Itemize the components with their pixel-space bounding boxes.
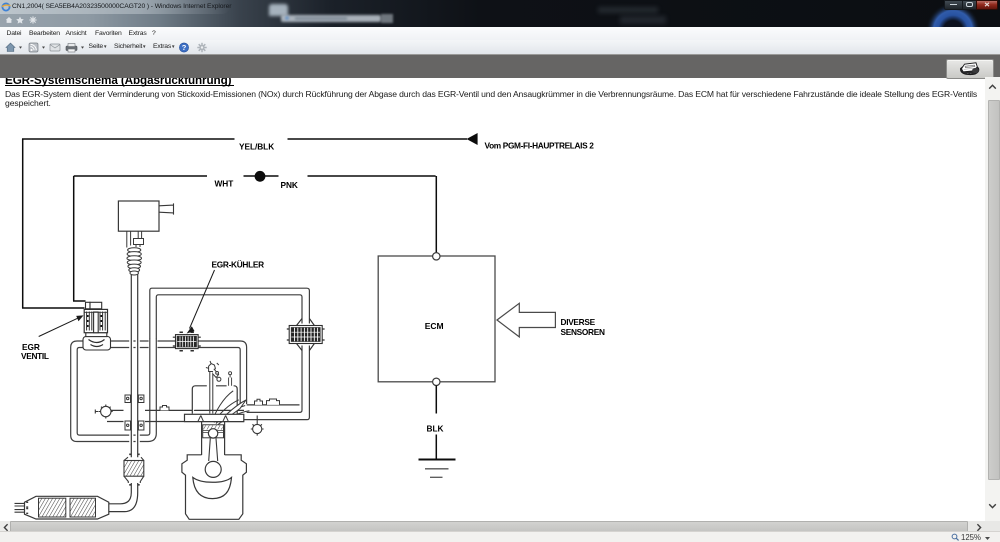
bellows tube under solenoid	[127, 248, 142, 275]
svg-text:EGR-KÜHLER: EGR-KÜHLER	[212, 260, 265, 270]
page heading (clipped by gray toolbar)	[5, 74, 231, 87]
vertical scrollbar	[985, 77, 1000, 521]
svg-text:DIVERSE: DIVERSE	[561, 317, 596, 327]
engine crankcase block	[182, 455, 247, 520]
svg-text:YEL/BLK: YEL/BLK	[239, 142, 274, 152]
MAP sensor diamond on left runner end	[95, 405, 112, 419]
gray toolbar with print button	[0, 54, 1000, 79]
injector assembly on plenum top	[206, 361, 232, 414]
muffler	[15, 496, 109, 519]
wire YEL/BLK left drop to EGR valve	[22, 139, 85, 308]
vacuum port valve below runner	[251, 416, 264, 436]
wire YEL/BLK top	[22, 138, 467, 140]
ECM box U1	[378, 256, 495, 382]
svg-text:BLK: BLK	[427, 424, 444, 434]
svg-text:PNK: PNK	[281, 180, 298, 190]
air resonator on right hose	[287, 319, 325, 351]
intake plenum	[192, 386, 237, 414]
EGR valve assembly	[83, 302, 111, 350]
engine cylinder head	[185, 414, 244, 421]
wire: hose from EGR valve through EGR cooler to manifold	[110, 341, 247, 404]
wire WHT/PNK	[73, 176, 436, 301]
status bar	[0, 531, 1000, 542]
solenoid valve (EGR control) body	[118, 201, 173, 248]
wire: metal EGR pipe from solenoid down to exhaust	[109, 272, 138, 512]
svg-text:SENSOREN: SENSOREN	[561, 327, 605, 337]
pipe flange collar at intake crossing	[125, 395, 144, 430]
wire: intake runner horizontal pipe	[107, 405, 300, 422]
feed icon	[29, 43, 38, 52]
command bar	[0, 40, 1000, 54]
IE icon	[1, 2, 11, 12]
DIVERSE SENSOREN block arrow	[497, 303, 555, 337]
EGR cooler (EGR-KUEHLER)	[173, 332, 201, 351]
arrowhead to PGM-FI main relay	[467, 133, 478, 145]
junction break where riser crosses cooler hose	[149, 339, 158, 350]
svg-text:WHT: WHT	[215, 179, 234, 189]
sensor fitting bumps on runner	[160, 399, 280, 410]
wire BLK to ground	[435, 386, 437, 460]
blurry background tab shapes	[269, 4, 288, 16]
small white icons row: home, star, gear	[5, 16, 41, 24]
ECM bottom pin	[433, 378, 440, 385]
engine cylinder and piston	[202, 422, 225, 461]
ECM top pin	[433, 253, 440, 260]
horizontal scrollbar	[0, 521, 1000, 532]
body paragraph	[5, 89, 977, 99]
intake spray streaks	[212, 391, 249, 425]
IE logo blue glow	[900, 0, 1000, 27]
home icon	[6, 43, 15, 52]
catalytic converter on EGR pipe	[124, 454, 144, 485]
browser title bar (dark aero glass)	[0, 0, 1000, 27]
wire: vacuum hose loop (EGR valve to intake, long riser to upper loop)	[71, 288, 310, 441]
svg-text:ECM: ECM	[425, 321, 444, 331]
junction node WHT/PNK	[255, 171, 266, 182]
caption buttons	[944, 0, 964, 10]
menu bar	[0, 27, 1000, 40]
svg-text:VENTIL: VENTIL	[21, 351, 49, 361]
ground symbol	[419, 460, 456, 478]
printer icon	[66, 46, 77, 51]
mail icon	[50, 44, 60, 51]
svg-text:Vom PGM-FI-HAUPTRELAIS 2: Vom PGM-FI-HAUPTRELAIS 2	[485, 141, 595, 151]
